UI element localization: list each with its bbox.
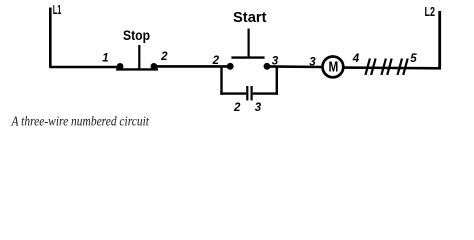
svg-text:5: 5 <box>410 53 417 65</box>
svg-text:2: 2 <box>160 51 168 63</box>
overload heater OL slash 2a <box>381 59 386 76</box>
wire node 3 to coil <box>267 65 323 68</box>
seal-in branch: right drop wire <box>276 66 278 95</box>
svg-text:2: 2 <box>212 55 220 67</box>
svg-text:L1: L1 <box>53 3 62 17</box>
svg-text:1: 1 <box>102 53 108 65</box>
L1 rail <box>49 8 52 68</box>
wire node 2 to node 2 (stop to start) <box>154 65 231 68</box>
svg-text:2: 2 <box>233 102 241 114</box>
overload heater OL slash 1b <box>371 59 376 76</box>
overload heater OL slash 1a <box>365 59 370 76</box>
start pushbutton NO: actuator stem <box>248 29 250 58</box>
svg-text:4: 4 <box>352 53 360 65</box>
M auxiliary NO contact: right plate <box>251 86 253 100</box>
stop pushbutton NC: left terminal dot <box>117 63 124 70</box>
M auxiliary NO contact: left plate <box>246 86 248 100</box>
seal-in branch: left drop wire <box>220 66 222 95</box>
svg-text:Start: Start <box>233 10 267 26</box>
start pushbutton NO: left terminal dot <box>227 63 234 70</box>
stop pushbutton NC: actuator stem <box>138 45 140 69</box>
seal-in branch: right horizontal wire <box>253 92 278 94</box>
svg-text:M: M <box>329 60 339 76</box>
svg-text:3: 3 <box>255 102 262 114</box>
svg-text:L2: L2 <box>425 5 435 19</box>
svg-text:Stop: Stop <box>123 28 150 43</box>
overload heater OL slash 3b <box>403 59 408 76</box>
svg-text:A three-wire numbered circuit: A three-wire numbered circuit <box>11 115 150 130</box>
L2 rail <box>438 11 441 68</box>
seal-in branch: left horizontal wire <box>220 92 246 94</box>
overload heater OL slash 2b <box>387 59 392 76</box>
start pushbutton NO: right terminal dot <box>264 63 271 70</box>
wire coil to L2 corner <box>343 66 441 69</box>
start pushbutton NO: contact bar <box>231 56 264 58</box>
stop pushbutton NC: right terminal dot <box>151 63 158 70</box>
stop pushbutton NC: contact bar <box>116 68 158 70</box>
motor starter coil M <box>323 57 344 78</box>
wire L1 corner to node 1 <box>49 66 121 69</box>
svg-text:3: 3 <box>309 57 316 69</box>
overload heater OL slash 3a <box>398 59 403 76</box>
